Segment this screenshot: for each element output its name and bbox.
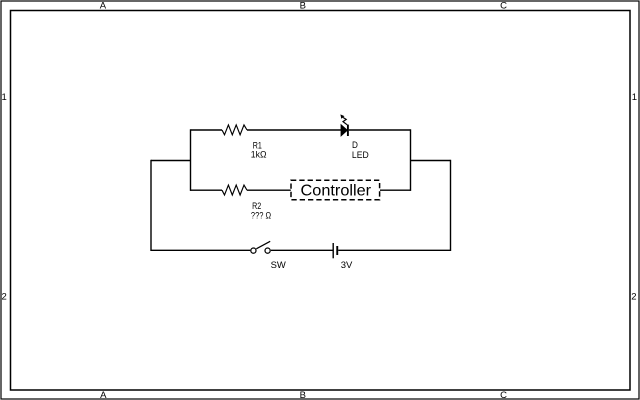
LED D cathode bar [347, 125, 349, 136]
wire top middle segment [247, 129, 341, 131]
wire battery to right [338, 249, 450, 251]
svg-text:B: B [300, 390, 306, 400]
svg-text:C: C [500, 1, 507, 12]
svg-text:??? Ω: ??? Ω [251, 210, 271, 221]
controller U1 dashed box [291, 180, 380, 199]
wire left stub [151, 160, 191, 162]
wire switch to battery [271, 249, 333, 251]
svg-text:3V: 3V [341, 260, 353, 271]
wire right outer vertical [450, 160, 452, 251]
resistor R1 [222, 125, 247, 135]
svg-text:LED: LED [352, 150, 369, 161]
battery long plate [332, 243, 334, 258]
svg-text:Controller: Controller [301, 183, 372, 200]
wire right stub [411, 160, 451, 162]
wire right inner vertical [410, 129, 412, 191]
wire middle left segment [191, 189, 223, 191]
wire top left segment [191, 129, 223, 131]
switch SW right contact [265, 248, 270, 253]
wire top right segment [349, 129, 411, 131]
wire bottom left segment [151, 249, 250, 251]
wire controller to right vertical [380, 189, 411, 191]
battery short thick plate [336, 246, 338, 255]
svg-text:1kΩ: 1kΩ [251, 149, 267, 160]
LED light arrowhead [341, 115, 344, 118]
svg-text:1: 1 [1, 92, 6, 103]
switch SW lever [256, 241, 270, 249]
svg-text:A: A [100, 1, 107, 12]
wire left inner vertical [190, 129, 192, 191]
svg-text:2: 2 [631, 291, 636, 302]
LED light arrow zigzag [343, 117, 347, 124]
svg-text:B: B [300, 1, 306, 12]
wire left outer vertical [150, 160, 152, 251]
LED D anode triangle [341, 125, 347, 136]
wire middle to controller [247, 189, 291, 191]
svg-text:A: A [100, 390, 107, 400]
svg-text:C: C [500, 390, 507, 400]
svg-text:SW: SW [271, 260, 286, 271]
svg-text:2: 2 [1, 291, 6, 302]
svg-text:1: 1 [632, 92, 637, 103]
switch SW left contact [251, 248, 256, 253]
resistor R2 [222, 185, 247, 195]
